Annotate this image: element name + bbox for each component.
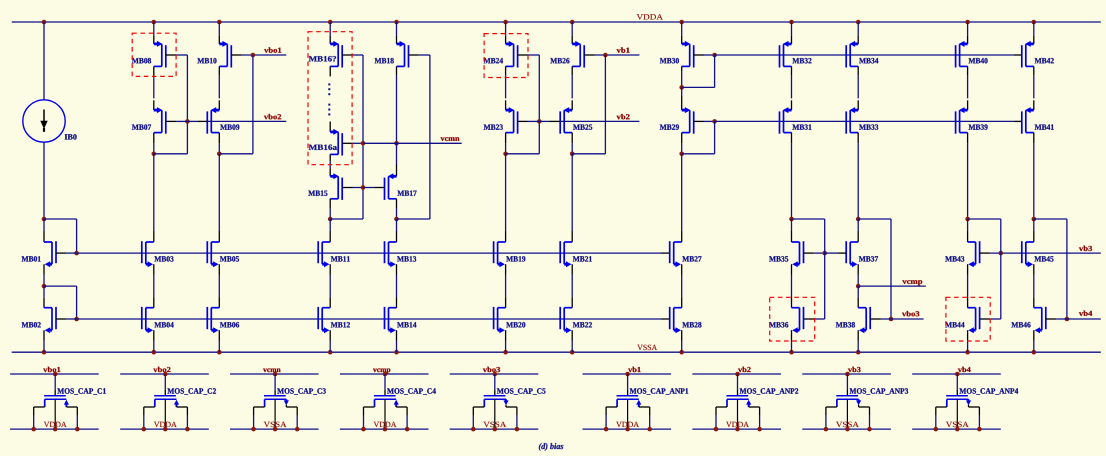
- wire MB16a source stub: [329, 122, 331, 132]
- label MB06: [220, 322, 239, 327]
- junction on VSSA: [570, 350, 575, 355]
- MOS capacitor MOS_CAP_C3: [254, 374, 298, 429]
- junction MB01 drain node: [42, 217, 47, 222]
- junction VDDA center: [625, 427, 630, 432]
- wire MB27 source to MB28 drain: [681, 264, 683, 274]
- label MB14: [397, 322, 416, 327]
- junction MB02 gate (bus2): [74, 317, 79, 322]
- wire gate column down to MB44 gate: [1000, 253, 1002, 319]
- MOS capacitor MOS_CAP_C5: [473, 374, 517, 429]
- wire MB08 gate to MB07 gate (vertical): [186, 55, 188, 154]
- junction MB43/MB44 gates (vb3): [999, 251, 1004, 256]
- wire MB03 source to MB04 drain: [153, 264, 155, 274]
- transistor MB25 (PMOS): [560, 107, 572, 134]
- wire MB07 drain to node: [153, 133, 155, 144]
- junction VSSA center: [493, 427, 498, 432]
- wire gate column down to MB36 gate: [824, 253, 826, 319]
- PMOS gate bus row1: [715, 54, 1014, 56]
- transistor MB04 (NMOS): [142, 307, 154, 333]
- wire MB38 source to VSSA: [857, 330, 859, 340]
- wire down to MB03 drain: [153, 154, 155, 231]
- MOS capacitor MOS_CAP_ANP3: [826, 374, 870, 429]
- wire MB25 drain to node: [571, 133, 573, 144]
- wire MB37 gate lead (from bus segment): [838, 252, 846, 254]
- label MB29: [660, 124, 679, 129]
- supply stub VSSA (bottom of MOS_CAP_C3): [230, 428, 319, 430]
- label MB32: [792, 58, 811, 63]
- wire MB13 source to MB14 drain: [396, 264, 398, 274]
- transistor MB34 (PMOS): [846, 41, 858, 68]
- junction VSSA right: [515, 427, 520, 432]
- label MB31: [792, 124, 811, 129]
- MOS capacitor MOS_CAP_ANP2: [716, 374, 760, 429]
- junction MB13 diode node: [394, 217, 399, 222]
- junction VDDA center: [735, 427, 740, 432]
- net label vb3: [1079, 246, 1092, 251]
- transistor MB26 (PMOS): [572, 41, 584, 68]
- label MB27: [682, 256, 701, 261]
- junction VDDA center: [383, 427, 388, 432]
- net stub vcmn (top of MOS_CAP_C3): [230, 373, 319, 375]
- wire MB07 gate lead: [166, 120, 176, 122]
- net vb1 wire (MB26 gate): [584, 54, 594, 56]
- net label vcmn: [263, 369, 281, 373]
- net stub vbo3 (top of MOS_CAP_C5): [450, 373, 539, 375]
- junction MB43 drain node: [965, 217, 970, 222]
- wire MB33 drain down: [857, 133, 859, 144]
- junction VSSA center: [955, 427, 960, 432]
- wire MB35 gate lead: [804, 252, 814, 254]
- junction on VDDA: [856, 20, 861, 25]
- junction VSSA center: [273, 427, 278, 432]
- wire MB11 node to cascode column: [330, 218, 363, 220]
- net label vbo1: [264, 47, 281, 52]
- supply stub VSSA (bottom of MOS_CAP_C5): [450, 428, 539, 430]
- junction MB07/MB09 gates: [185, 119, 190, 124]
- label MB01: [22, 256, 41, 261]
- transistor MB19 (NMOS): [494, 241, 506, 267]
- transistor MB03 (NMOS): [142, 241, 154, 267]
- transistor MB05 (NMOS): [207, 241, 219, 267]
- supply stub VDDA (bottom of MOS_CAP_C4): [340, 428, 429, 430]
- junction vb3: [845, 372, 850, 377]
- label MB03: [154, 256, 173, 261]
- net label VDDA: [637, 14, 663, 19]
- wire VDDA to MB18 source: [396, 22, 398, 36]
- wire MB43 source to MB44 drain: [967, 264, 969, 274]
- wire gate column to MB07 drain node: [154, 153, 188, 155]
- net vcmn wire: [363, 142, 462, 144]
- transistor MB45 (NMOS): [1022, 241, 1034, 267]
- wire VDDA to MB42 source: [1033, 22, 1035, 36]
- MOS capacitor MOS_CAP_ANP1: [606, 374, 650, 429]
- label MB11: [331, 256, 350, 261]
- label MOS_CAP_C4: [387, 388, 436, 394]
- transistor MB38 (NMOS): [858, 307, 870, 333]
- net label vbo2: [264, 114, 281, 119]
- junction vcmp: [856, 284, 861, 289]
- label MB09: [220, 124, 239, 129]
- NMOS gate bus row1: [77, 252, 662, 254]
- label MB34: [859, 58, 878, 63]
- transistor MB07 (PMOS): [154, 107, 166, 134]
- label MOS_CAP_C5: [497, 388, 546, 394]
- wire MB08 gate lead: [166, 54, 176, 56]
- wire MB05 source to MB06 drain: [218, 264, 220, 274]
- wire down to MB19 drain: [505, 154, 507, 231]
- wire MB17 gate lead: [374, 187, 384, 189]
- ellipsis dots (series devices): [328, 83, 330, 115]
- wire VDDA to MB26 source: [571, 22, 573, 36]
- MB37 drain loop to MB38 gate: [858, 218, 891, 220]
- wire MB15 gate lead: [342, 187, 352, 189]
- wire MB31 drain down: [791, 133, 793, 144]
- junction MB46 gate / vb4: [1065, 317, 1070, 322]
- label MB12: [331, 322, 350, 327]
- transistor MB46 (NMOS): [1034, 307, 1046, 333]
- MOS capacitor MOS_CAP_C4: [364, 374, 408, 429]
- MB45 drain loop to MB46 gate: [1034, 218, 1067, 220]
- label MB21: [573, 256, 592, 261]
- transistor MB42 (PMOS): [1022, 41, 1034, 68]
- NMOS gate bus row2: [77, 318, 662, 320]
- junction on VSSA: [679, 350, 684, 355]
- dashed box around MB16 series: [308, 32, 352, 165]
- VSSA rail: [12, 351, 1101, 353]
- wire MB07 drain-source stack: [153, 66, 155, 75]
- wire to MB01 drain: [43, 219, 45, 231]
- junction MB02 drain node: [42, 284, 47, 289]
- label MB23: [484, 124, 503, 129]
- junction MB35/MB36 gates: [822, 251, 827, 256]
- MB43 diode loop to gates: [968, 218, 1001, 220]
- junction VSSA left: [824, 427, 829, 432]
- net label vbo2: [153, 367, 170, 372]
- current source IB0: [23, 100, 65, 142]
- supply stub VDDA (bottom of MOS_CAP_ANP1): [583, 428, 672, 430]
- wire VDDA to MB34 source: [857, 22, 859, 36]
- label MB45: [1034, 256, 1053, 261]
- net label VSSA: [637, 345, 657, 350]
- label MB05: [220, 256, 239, 261]
- MOS capacitor MOS_CAP_C2: [144, 374, 188, 429]
- supply stub VDDA (bottom of MOS_CAP_C1): [10, 428, 99, 430]
- wire MB12 source to VSSA: [329, 330, 331, 340]
- label MB16a: [309, 145, 337, 150]
- net label vcmp: [373, 369, 390, 374]
- wire PMOS stack: [505, 66, 507, 75]
- wire MB46 source to VSSA: [1033, 330, 1035, 340]
- wire MB29 gate lead: [694, 120, 704, 122]
- supply label VSSA: [836, 422, 859, 427]
- junction on VDDA: [1032, 20, 1037, 25]
- label MB36: [769, 322, 788, 327]
- junction vcmp: [383, 372, 388, 377]
- label MOS_CAP_C2: [167, 388, 216, 394]
- wire MB01 source to MB02 drain: [43, 264, 45, 274]
- transistor MB18 (PMOS): [397, 41, 409, 68]
- label MB17: [397, 191, 416, 196]
- wire MB29 node down to MB27: [681, 154, 683, 219]
- junction MB29 gate (bus2): [712, 119, 717, 124]
- junction VDDA left: [714, 427, 719, 432]
- wire MB35 source to MB36 drain: [791, 264, 793, 274]
- junction on VSSA: [42, 350, 47, 355]
- net label vb1: [628, 367, 641, 372]
- junction VDDA center: [163, 427, 168, 432]
- net label vcmn: [441, 137, 460, 141]
- wire VDDA to MB16 source: [329, 22, 331, 36]
- transistor MB40 (PMOS): [956, 41, 968, 68]
- junction VSSA right: [295, 427, 300, 432]
- wire down to MB13 drain: [396, 219, 398, 231]
- wire MB01 gate lead: [56, 252, 66, 254]
- junction on VSSA: [217, 350, 222, 355]
- junction vbo1: [251, 53, 256, 58]
- wire MB28 source to VSSA: [681, 330, 683, 340]
- junction vbo2: [163, 372, 168, 377]
- dashed box around MB24: [484, 34, 528, 78]
- net label vb4: [1079, 311, 1092, 316]
- label MB25: [573, 124, 592, 129]
- label MB02: [22, 322, 41, 327]
- junction vbo3: [493, 372, 498, 377]
- wire MB04 source to VSSA: [153, 330, 155, 340]
- junction VSSA right: [977, 427, 982, 432]
- transistor MB11 (NMOS): [318, 241, 330, 267]
- wire vb1 down to MB25 drain node: [604, 55, 606, 154]
- label MB42: [1035, 58, 1054, 63]
- net label vbo3: [902, 311, 919, 316]
- wire vcmn node to MB17 source: [396, 143, 398, 164]
- label MOS_CAP_ANP1: [630, 388, 689, 394]
- VDDA rail: [12, 21, 1101, 23]
- net stub vb2 (top of MOS_CAP_ANP2): [692, 373, 781, 375]
- wire MB44 source to VSSA: [967, 330, 969, 340]
- PMOS gate bus row2: [715, 120, 1014, 122]
- wire MB39 drain down: [967, 133, 969, 144]
- junction on VSSA: [152, 350, 157, 355]
- wire down to MB11 drain: [329, 219, 331, 231]
- wire down to MB05 drain: [218, 154, 220, 231]
- junction VDDA left: [361, 427, 366, 432]
- wire gate column to MB23 drain node: [506, 153, 540, 155]
- wire to MB37 drain: [857, 219, 859, 231]
- wire VDDA to MB40 source: [967, 22, 969, 36]
- label MOS_CAP_ANP4: [959, 388, 1018, 394]
- junction MB25 drain node: [570, 152, 575, 157]
- net label vbo1: [43, 367, 60, 372]
- transistor MB14 (NMOS): [385, 307, 397, 333]
- MOS capacitor MOS_CAP_ANP4: [936, 374, 980, 429]
- junction on VSSA: [965, 350, 970, 355]
- junction on VDDA: [679, 20, 684, 25]
- label MB28: [682, 322, 701, 327]
- transistor MB30 (PMOS): [682, 41, 694, 68]
- transistor MB32 (PMOS): [780, 41, 792, 68]
- wire VDDA to MB08 source: [153, 22, 155, 36]
- transistor MB43 (NMOS): [968, 241, 980, 267]
- junction VSSA center: [845, 427, 850, 432]
- supply stub VSSA (bottom of MOS_CAP_ANP4): [912, 428, 1001, 430]
- supply stub VSSA (bottom of MOS_CAP_ANP3): [802, 428, 891, 430]
- dashed box around MB36: [770, 297, 815, 341]
- wire MB34 drain to MB33 source: [857, 66, 859, 75]
- MB35 diode loop to gates: [792, 218, 825, 220]
- label MB35: [769, 256, 788, 261]
- wire MB42 drain to MB41 source: [1033, 66, 1035, 75]
- net label vbo3: [483, 367, 500, 372]
- net label vb2: [617, 114, 630, 119]
- junction vb4: [955, 372, 960, 377]
- transistor MB13 (NMOS): [385, 241, 397, 267]
- MB30 diode loop: [682, 86, 715, 88]
- junction on VSSA: [328, 350, 333, 355]
- MB02 diode loop: [44, 285, 77, 287]
- label MB07: [132, 124, 151, 129]
- junction VDDA right: [75, 427, 80, 432]
- net label vb2: [738, 367, 751, 372]
- net label vb4: [958, 367, 971, 372]
- supply label VDDA: [374, 422, 397, 427]
- supply label VDDA: [44, 422, 67, 427]
- net label vcmp: [902, 280, 922, 285]
- wire down to MB27 drain: [681, 219, 683, 232]
- wire to MB45 drain: [1033, 219, 1035, 231]
- wire MB43 gate lead / net vb3: [980, 252, 990, 254]
- wire VDDA to MB10 source: [218, 22, 220, 36]
- label MB22: [573, 322, 592, 327]
- junction VDDA right: [185, 427, 190, 432]
- junction on VDDA: [965, 20, 970, 25]
- supply label VSSA: [483, 422, 506, 427]
- junction on VSSA: [856, 350, 861, 355]
- wire MB18 gate lead: [409, 54, 419, 56]
- dashed box around MB44: [946, 297, 990, 341]
- transistor MB12 (NMOS): [318, 307, 330, 333]
- transistor MB20 (NMOS): [494, 307, 506, 333]
- junction VDDA left: [142, 427, 147, 432]
- net label vb1: [617, 47, 630, 52]
- wire MB23 gate lead: [518, 120, 528, 122]
- junction vb1: [603, 53, 608, 58]
- transistor MB15 (PMOS): [330, 173, 342, 200]
- wire MB36 source to VSSA: [791, 330, 793, 340]
- label MOS_CAP_ANP2: [740, 388, 799, 394]
- junction on VDDA: [503, 20, 508, 25]
- net stub vcmp (top of MOS_CAP_C4): [340, 373, 429, 375]
- junction VDDA left: [604, 427, 609, 432]
- transistor MB09 (PMOS): [207, 107, 219, 134]
- wire vbo1 down to MB09 drain node: [252, 55, 254, 154]
- junction on VDDA: [789, 20, 794, 25]
- supply stub VDDA (bottom of MOS_CAP_C2): [120, 428, 209, 430]
- wire MB19 source to MB20 drain: [505, 264, 507, 274]
- net stub vbo2 (top of MOS_CAP_C2): [120, 373, 209, 375]
- wire to MB02 drain: [43, 286, 45, 298]
- junction vcmn / cascode gates: [361, 141, 366, 146]
- junction MB23 drain node: [503, 152, 508, 157]
- wire MB23 drain to node: [505, 133, 507, 144]
- transistor MB28 (NMOS): [670, 307, 682, 333]
- wire IB0 to MB01: [43, 142, 45, 219]
- junction on VSSA: [1032, 350, 1037, 355]
- junction VSSA left: [934, 427, 939, 432]
- junction MB11 diode node: [328, 217, 333, 222]
- wire MB16 drain stub: [329, 66, 331, 76]
- wire MB30 gate lead: [694, 54, 704, 56]
- transistor MB41 (PMOS): [1022, 107, 1034, 134]
- net stub vb4 (top of MOS_CAP_ANP4): [912, 373, 1001, 375]
- transistor MB08 (PMOS): [154, 41, 166, 68]
- label MB10: [197, 58, 216, 63]
- label MB30: [660, 58, 679, 63]
- transistor MB10 (PMOS): [219, 41, 231, 68]
- label MB43: [945, 256, 964, 261]
- junction vb2: [735, 372, 740, 377]
- junction on VSSA: [503, 350, 508, 355]
- wire down to MB21 drain: [571, 154, 573, 231]
- junction MB29 drain node: [679, 152, 684, 157]
- wire MB09 drain to node: [218, 133, 220, 144]
- caption (d) bias: [539, 443, 563, 451]
- supply label VDDA: [154, 422, 177, 427]
- net stub vb1 (top of MOS_CAP_ANP1): [583, 373, 672, 375]
- junction on VSSA: [789, 350, 794, 355]
- supply stub VDDA (bottom of MOS_CAP_ANP2): [692, 428, 781, 430]
- label MB20: [506, 322, 525, 327]
- transistor MB39 (PMOS): [956, 107, 968, 134]
- label MB46: [1011, 322, 1030, 327]
- net stub vbo1 (top of MOS_CAP_C1): [10, 373, 99, 375]
- net vb2 wire: [539, 120, 549, 122]
- junction on VDDA: [328, 20, 333, 25]
- wire cascode gate column (MB16/MB16a/MB15): [362, 55, 364, 219]
- wire MB02 gate lead: [56, 318, 66, 320]
- label IB0: [65, 134, 77, 139]
- wire MB45 source to MB46 drain: [1033, 264, 1035, 274]
- net vbo2 wire: [187, 120, 197, 122]
- supply label VSSA: [946, 422, 969, 427]
- junction on VDDA: [570, 20, 575, 25]
- junction vb1: [625, 372, 630, 377]
- MB29 diode loop: [682, 153, 715, 155]
- junction MB18 drain / vcmn: [394, 141, 399, 146]
- junction on VDDA: [42, 20, 47, 25]
- transistor MB24 (PMOS): [506, 41, 518, 68]
- transistor MB22 (NMOS): [560, 307, 572, 333]
- wire MB21 source to MB22 drain: [571, 264, 573, 274]
- wire MB18 gate down to MB13 node: [429, 55, 431, 219]
- MOS capacitor MOS_CAP_C1: [34, 374, 78, 429]
- transistor MB29 (PMOS): [682, 107, 694, 134]
- wire MB24 gate to MB23 gate (vertical): [538, 55, 540, 154]
- wire VDDA to IB0: [43, 22, 45, 100]
- junction MB35 drain node: [789, 217, 794, 222]
- wire down to MB38 drain: [857, 286, 859, 297]
- net vcmp wire: [858, 285, 926, 287]
- wire MB32 drain to MB31 source: [791, 66, 793, 75]
- junction VSSA right: [867, 427, 872, 432]
- junction MB30 drain: [679, 85, 684, 90]
- transistor MB35 (NMOS): [792, 241, 804, 267]
- junction MB01 gate (bus1): [74, 251, 79, 256]
- transistor MB06 (NMOS): [207, 307, 219, 333]
- transistor MB36 (NMOS): [792, 307, 804, 333]
- wire to MB43 drain: [967, 219, 969, 231]
- junction VDDA right: [757, 427, 762, 432]
- junction VDDA center: [53, 427, 58, 432]
